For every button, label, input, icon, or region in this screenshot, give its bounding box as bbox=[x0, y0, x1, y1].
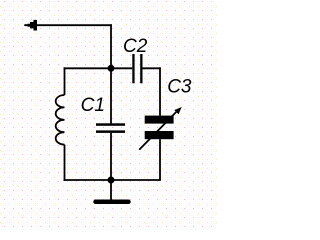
capacitor C2 bbox=[132, 54, 142, 83]
wire: node A to C2 bbox=[111, 67, 132, 69]
svg-text:C3: C3 bbox=[167, 77, 192, 98]
svg-text:C1: C1 bbox=[81, 95, 105, 116]
wire: left branch lower segment bbox=[64, 145, 66, 181]
wire: left branch upper segment bbox=[64, 67, 66, 95]
wire: bottom of tank loop bbox=[64, 179, 161, 181]
wire: C1 lower lead bbox=[110, 133, 112, 180]
svg-text:C2: C2 bbox=[123, 36, 148, 57]
capacitor C1 bbox=[96, 123, 125, 133]
wire: right branch upper segment bbox=[159, 67, 161, 115]
node A junction (top) bbox=[108, 65, 115, 72]
node B junction (bottom) bbox=[108, 177, 115, 184]
wire: vertical from output lead down to node A bbox=[110, 24, 112, 68]
output arrowhead bbox=[24, 20, 37, 31]
ground symbol bbox=[96, 200, 129, 205]
inductor L1 (4 bumps) bbox=[56, 95, 65, 145]
wire: top of tank loop bbox=[64, 67, 111, 69]
wire: C3 lower lead bbox=[159, 139, 161, 180]
wire: horizontal output lead bbox=[25, 24, 112, 26]
variable capacitor C3 bbox=[139, 107, 182, 150]
wire: ground stub bbox=[110, 180, 112, 200]
wire: C2 to right branch corner bbox=[143, 67, 161, 69]
wire: C1 upper lead bbox=[110, 68, 112, 123]
